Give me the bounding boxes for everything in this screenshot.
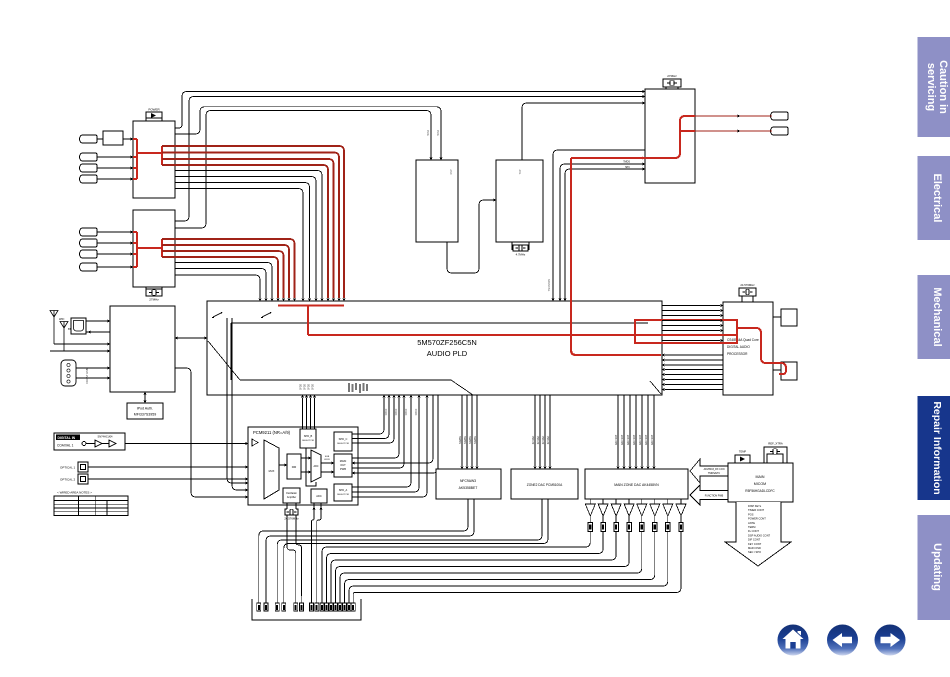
antenna ANT2 [60,322,72,352]
sidebar tab Electrical [918,156,950,240]
svg-text:SUB: SUB [325,456,330,458]
oscillation amplifier box [283,488,300,503]
wire bundle PLD to U12 [615,395,656,469]
crystal X2 below U9 [284,503,299,521]
svg-text:ANTE: ANTE [748,521,755,525]
svg-text:AUDIO PLD: AUDIO PLD [427,349,468,358]
IC label block inside PLD [348,383,368,393]
red wire bundle U1 to PLD [162,146,346,301]
HDMI input connector J4 [80,175,98,183]
wire U6 to PCM9211 [175,368,248,499]
wire ANT2 to U6 [50,349,110,352]
ADC trapezoid inside U9 [311,450,321,482]
wire J2 to U1 [97,155,133,158]
HDMI TX DSP block U4 [496,160,543,242]
black wire bundle PLD to U8 [662,304,723,342]
crystal circuit below U4 [512,242,529,257]
optical input 2 [60,474,88,484]
block arrow to HDMI RX [690,459,728,483]
digital in coax box [54,433,125,450]
wire J3 to U1 [97,166,133,169]
svg-text:DIGITAL IN: DIGITAL IN [58,436,76,440]
nav button forward [875,625,906,656]
ADC block U10 [436,469,501,499]
red loop rectangle at DIR [635,320,737,343]
sidebar tab Updating [918,515,950,620]
HDMI input connector J3 [80,164,98,172]
connector pin at x=283.8 [282,596,286,611]
svg-text:MFI337S3959: MFI337S3959 [134,413,157,417]
svg-text:Z2 DAC: Z2 DAC [542,435,545,444]
svg-text:24.576MHz: 24.576MHz [740,283,755,287]
svg-text:TMDS/ETC: TMDS/ETC [708,472,720,475]
notes table [54,491,128,516]
svg-text:DAC SDT: DAC SDT [627,434,630,445]
svg-text:SELECTOR: SELECTOR [337,443,349,445]
svg-text:DAC SDT: DAC SDT [645,434,648,445]
antenna ANT1 [50,311,65,345]
svg-text:MUX: MUX [269,469,275,473]
resistor row below op-amps [588,516,683,532]
svg-text:SPDIF: SPDIF [406,408,408,415]
SPD_C selector box [334,432,352,451]
red wire U5 to J9 [695,114,772,117]
connector pin at x=344.5 [343,596,347,611]
wire crystal X2 to connector (a) [287,515,296,596]
svg-text:WIFI: WIFI [59,318,65,321]
red bus tree inside U2 [133,232,162,267]
HDMI input connector J8 [80,263,98,271]
svg-text:SPDIF: SPDIF [416,408,418,415]
wire U11 to connector (a) [277,499,542,596]
svg-text:COAXIAL 1: COAXIAL 1 [57,444,74,448]
svg-text:DAC SDT: DAC SDT [633,434,636,445]
connector pin at x=311.4 [309,596,313,611]
wire crystal X2 to connector (b) [296,515,302,596]
SPD_B selector box [300,429,316,448]
svg-text:BT: BT [68,328,72,331]
svg-text:4.7MHz: 4.7MHz [516,253,526,257]
pin labels above U3 [427,130,440,136]
svg-text:SPDB: SPDB [313,383,315,390]
MUX trapezoid inside U9 [264,440,279,499]
svg-text:TIMER CONT: TIMER CONT [748,508,765,512]
HDMI output block U5 [645,89,695,183]
red wire U5 to J10 [695,129,772,132]
svg-text:5M570ZF256C5N: 5M570ZF256C5N [417,338,477,347]
crystal circuit above U1 [146,108,162,122]
big down arrow from U13 [725,502,791,566]
wire U2 to U3 [175,111,433,229]
svg-text:SEC / SPO: SEC / SPO [748,550,761,554]
svg-text:SPDIF: SPDIF [386,408,388,415]
svg-text:DSP AUDIO CONT: DSP AUDIO CONT [748,533,771,537]
wire bundle U9 outputs to PLD [352,395,429,497]
black wire bundle U8 to PLD [662,353,723,391]
wire U11 to connector (b) [284,499,548,596]
connector pin at x=266 [264,596,268,611]
connector pin at x=258.8 [257,596,261,611]
connector pin at x=349 [347,596,351,611]
HDMI output connector J10 [771,127,789,135]
black wire bundle U1 to PLD [175,171,324,302]
connector pin at x=277.2 [275,596,279,611]
connector pin at x=340 [338,596,342,611]
svg-text:Oscillation: Oscillation [286,492,298,495]
iPod auth chip [127,403,163,419]
bypass switch SW2 inside PLD [261,312,271,318]
svg-text:REF_XTRA: REF_XTRA [768,442,783,446]
red bus inside PLD [278,306,737,356]
HDMI input connector J7 [80,250,98,258]
bottom wire bundle resistors to connector [322,532,681,597]
connector pin at x=316.7 [315,596,319,611]
svg-text:Repair Information: Repair Information [931,401,943,494]
wire ADC aux to connector (a) [311,503,315,596]
svg-text:SELECTOR: SELECTOR [302,440,314,442]
wire J7 to U2 [97,252,133,255]
DIN connector J12 [61,360,89,386]
svg-text:ADC: ADC [316,494,322,498]
wire coax to U9 [125,442,248,445]
wire J11 to U6 [86,319,110,322]
black wire bundle PLD to U5 [551,150,645,301]
bypass switch SW1 inside PLD [212,312,222,318]
svg-text:DSP: DSP [450,169,453,174]
connector pin at x=331 [329,596,333,611]
input buffer triangle [252,439,258,446]
svg-text:SPDB: SPDB [309,383,311,390]
wire U1 to U5 line1 [175,90,645,128]
svg-text:HDMI: HDMI [427,130,430,136]
svg-text:iPod Auth.: iPod Auth. [137,407,153,411]
svg-text:Z2 DAC: Z2 DAC [532,435,535,444]
crystal circuit above U8 [739,283,756,302]
wire U3 to U4 [447,198,496,273]
svg-text:SDATA: SDATA [469,436,472,444]
svg-text:DIF CONT: DIF CONT [748,538,761,542]
wire PLD to U9 main out (b) [352,395,438,475]
svg-text:ADV8003_RX CON: ADV8003_RX CON [704,468,725,471]
wire U4 to U5 [522,101,645,160]
svg-text:MAIN ZONE DAC AK4458VN: MAIN ZONE DAC AK4458VN [614,483,659,487]
DIR box inside U9 [287,454,301,479]
svg-text:PCM9211 (NR=A/9): PCM9211 (NR=A/9) [253,430,291,435]
svg-text:OUT: OUT [340,463,346,467]
connector pin at x=301.6 [300,596,304,611]
HDMI output connector J9 [771,112,789,120]
svg-text:< WIRED AREA NOTES >: < WIRED AREA NOTES > [57,491,92,495]
zone2 DAC U11 [511,469,578,499]
connector pin at x=353.2 [351,596,355,611]
ADC aux box [311,489,327,503]
svg-text:Amplifier: Amplifier [287,496,297,499]
sidebar tab Mechanical [918,275,950,359]
svg-text:SPD_C: SPD_C [339,437,348,441]
nav button home [778,625,809,656]
wire U6 to PLD [175,336,207,339]
svg-text:SPDIF: SPDIF [396,408,398,415]
svg-text:TDP: TDP [519,169,522,174]
red wire PLD to U5 [571,156,645,335]
svg-text:TMDSPWR: TMDSPWR [548,279,551,292]
wire J5 to U2 [97,230,133,233]
HDMI input connector J6 [80,239,98,247]
wire bundle PLD to U10 [459,395,479,469]
sidebar tab Caution in servicing [918,37,950,137]
svg-text:Updating: Updating [931,543,943,591]
red path inside U5 [645,116,695,158]
reset IC above U13 [735,450,750,464]
svg-text:POS: POS [748,512,754,516]
svg-text:DISP KEYs: DISP KEYs [748,504,762,508]
wire U8 to J14 [773,369,781,371]
svg-text:POWER: POWER [148,108,160,112]
optical input 1 [60,462,88,472]
svg-text:SPDB: SPDB [301,383,303,390]
svg-text:Z2 DAC: Z2 DAC [537,435,540,444]
svg-text:Electrical: Electrical [931,174,943,223]
svg-text:FRONT USB: FRONT USB [85,368,89,383]
svg-text:KEY CONT: KEY CONT [748,542,762,546]
main zone DAC U12 [585,469,688,499]
svg-text:POWER CONT: POWER CONT [748,517,766,521]
connector box J13 right of U8 [781,309,797,326]
wire optical2 to U9 [88,477,248,480]
network module U6 [110,306,175,392]
AUDIO PLD U7 [207,301,662,395]
svg-text:MAIN: MAIN [340,459,347,463]
svg-text:TMDS: TMDS [623,161,630,164]
digital audio DSP U8 [723,302,773,395]
wire optical1 to U9 [88,465,248,468]
red path DIR to output connector [737,328,786,374]
wire SW1 to U9 [227,318,248,485]
svg-text:HDMI: HDMI [437,130,440,136]
main micom U13 [728,463,793,502]
svg-text:SPD_B: SPD_B [304,434,313,438]
svg-text:DAC SDT: DAC SDT [639,434,642,445]
pin label near PLD-U5 bundle [548,279,551,292]
connector pin at x=322 [320,596,324,611]
svg-text:Mechanical: Mechanical [931,287,943,346]
wire bundle SPD_B to PLD [301,395,316,429]
svg-text:CS48544A Quad Core: CS48544A Quad Core [727,338,759,342]
svg-text:SPDB: SPDB [305,383,307,390]
svg-text:Z2 DAC: Z2 DAC [547,435,550,444]
svg-text:DIGITAL AUDIO: DIGITAL AUDIO [727,345,750,349]
wire U2 to U5 line2 [175,95,645,221]
wire J12 to U6 (b) [76,376,110,379]
svg-text:SDATA: SDATA [459,436,462,444]
wire J12 to U6 (a) [76,366,110,369]
wire ANT1 to U6 [54,342,110,345]
svg-text:27MHz: 27MHz [667,74,677,78]
crystal module above U13 [764,442,787,464]
connector pin at x=295.7 [294,596,298,611]
svg-text:DAC SDT: DAC SDT [621,434,624,445]
red wire bundle U2 to PLD [162,239,296,301]
pin labels beside U9 up-bundle [386,408,418,415]
svg-text:SPD_A: SPD_A [339,488,348,492]
wire PLD to U9 main out (a) [352,395,433,465]
PCM9211 block U9 [248,427,358,505]
svg-text:Caution in: Caution in [937,60,949,114]
wire U10 to connector (a) [259,499,468,596]
wire SW2 to U9 [232,318,248,492]
red bus tree inside U1 [133,139,162,179]
wire ADC aux to connector (b) [317,503,323,596]
svg-text:MAIN: MAIN [756,475,765,479]
SPD_A selector box [334,484,352,501]
svg-text:MAIN OSD: MAIN OSD [748,546,761,550]
sidebar tab Repair Information (active) [918,396,950,500]
wire bundle PLD to U11 [532,395,552,469]
svg-text:PROCESSOR: PROCESSOR [727,352,748,356]
HDMI input connector J5 [80,228,98,236]
svg-text:DAC SDT: DAC SDT [615,434,618,445]
wire U8 to J13 [773,316,781,318]
HDMI input connector J1 [80,135,98,143]
connector box J14 right of U8 [781,362,797,380]
wire U6 to iPod auth [143,392,146,403]
svg-text:FL CONT: FL CONT [748,529,759,533]
HDMI input switch U2 [133,210,175,287]
wire J6 to U2 [97,241,133,244]
wire U1 to U3 [175,107,443,160]
svg-text:LRCK: LRCK [324,459,330,461]
svg-text:SDATA: SDATA [464,436,467,444]
main out box [334,454,352,477]
svg-text:FUNCTION PWB: FUNCTION PWB [705,495,724,498]
black wire bundle U2 to PLD [175,263,274,302]
svg-text:SN74HCU04: SN74HCU04 [98,435,114,439]
svg-text:ZONE2 DAC PCM5100A: ZONE2 DAC PCM5100A [527,483,563,487]
wire J1 to filter to U1 [97,137,133,140]
internal wires U9 [279,448,334,486]
bottom connector strip J15 [252,599,361,620]
HDMI input switch U1 [133,121,175,198]
svg-text:PWB: PWB [340,467,346,471]
svg-text:AK5358BET: AK5358BET [459,486,478,490]
svg-text:27MHz: 27MHz [149,298,159,302]
svg-text:R5F56HGADLCDFC: R5F56HGADLCDFC [745,489,775,493]
wire U6 to J11 [86,330,110,333]
svg-text:SELECTOR: SELECTOR [337,494,349,496]
svg-text:SDATA: SDATA [474,436,477,444]
block arrow to function PWB [690,485,728,505]
svg-text:servicing: servicing [925,63,937,111]
svg-text:SPC: SPC [625,166,630,169]
ESD filter box [103,131,123,145]
svg-text:TEMP: TEMP [739,450,746,454]
svg-text:OPTICAL 1: OPTICAL 1 [60,466,76,470]
crystal circuit above U5 [663,74,681,89]
svg-text:DAC SDT: DAC SDT [651,434,654,445]
USB connector J11 [71,318,86,334]
nav button back [827,625,858,656]
svg-text:ADC: ADC [313,465,318,468]
wire U10 to connector (b) [266,499,474,596]
wire J4 to U1 [97,177,133,180]
svg-text:MICOM: MICOM [754,482,766,486]
connector pin at x=326.5 [325,596,329,611]
wire J8 to U2 [97,265,133,268]
svg-text:NFC9AW3: NFC9AW3 [460,479,476,483]
HDMI input connector J2 [80,153,98,161]
connector pin at x=335.5 [334,596,338,611]
pin labels above SPD_B bundle [301,383,315,390]
video DSP block U3 [416,160,458,242]
svg-text:24.576MHz: 24.576MHz [284,517,299,521]
crystal circuit below U2 [146,287,162,302]
op-amp buffer row below U12 [585,499,686,516]
svg-text:OPTICAL 2: OPTICAL 2 [60,478,76,482]
svg-text:DIR: DIR [292,465,297,469]
svg-text:TERM: TERM [748,525,755,529]
